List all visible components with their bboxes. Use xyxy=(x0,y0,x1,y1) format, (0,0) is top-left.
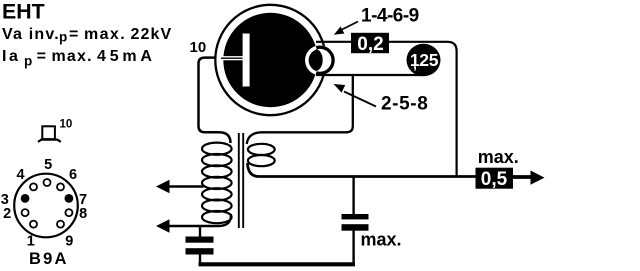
pin 7 filled xyxy=(65,194,74,203)
svg-text:0,5: 0,5 xyxy=(481,169,508,190)
wire anode bottom lead xyxy=(316,74,423,76)
wire anode top to 0,2 box and right rail xyxy=(316,42,457,176)
output box 0,5 xyxy=(476,168,514,189)
top cap symbol xyxy=(42,126,55,139)
tube envelope U1 xyxy=(215,5,325,115)
transformer primary coil L1 xyxy=(202,143,232,155)
svg-text:Iap=max.45mA: Iap=max.45mA xyxy=(2,48,156,68)
pin 6 xyxy=(57,183,64,190)
heater voltage circle 1,25 xyxy=(407,44,441,77)
pin 9 xyxy=(57,221,64,228)
pointer arrow to anode (1-4-6-9) xyxy=(341,22,358,31)
capacitor C1 lower stub xyxy=(199,254,201,264)
pin 3 filled xyxy=(21,194,30,203)
wire grid lead from label 10 down to transformer primary xyxy=(199,58,231,143)
notch circle black arc outside envelope xyxy=(307,47,333,73)
svg-text:1: 1 xyxy=(27,233,35,249)
svg-text:8: 8 xyxy=(79,206,87,222)
svg-text:10: 10 xyxy=(60,118,73,130)
wire drop to transformer secondary top xyxy=(247,75,353,144)
svg-text:B9A: B9A xyxy=(29,250,69,268)
socket B9A outline xyxy=(14,174,78,238)
svg-text:2-5-8: 2-5-8 xyxy=(381,94,428,115)
pin 5 xyxy=(44,179,51,186)
tube anode disc xyxy=(223,13,317,107)
wire primary tap xyxy=(167,185,204,187)
svg-text:,: , xyxy=(413,56,417,72)
svg-text:6: 6 xyxy=(69,167,77,183)
svg-text:max.: max. xyxy=(361,230,402,250)
arrow terminal upper left xyxy=(156,180,170,194)
current label box 0,2 xyxy=(351,33,389,53)
transformer secondary coil L2 xyxy=(248,144,275,155)
pin 2 xyxy=(22,209,29,216)
svg-text:1-4-6-9: 1-4-6-9 xyxy=(361,6,419,27)
svg-text:0,2: 0,2 xyxy=(357,34,383,55)
pin 8 xyxy=(65,209,72,216)
capacitor C2 lower stub xyxy=(352,231,354,265)
wire secondary bottom lead to output rail xyxy=(248,163,532,177)
pin 4 xyxy=(30,183,37,190)
svg-text:2: 2 xyxy=(3,206,11,222)
capacitor C2 plates xyxy=(342,214,369,219)
transformer core xyxy=(238,133,240,228)
capacitor C2 stub xyxy=(352,177,354,216)
svg-text:EHT: EHT xyxy=(2,0,45,24)
svg-text:Va inv.p=max.22kV: Va inv.p=max.22kV xyxy=(2,26,172,45)
svg-text:9: 9 xyxy=(65,233,73,249)
svg-text:5: 5 xyxy=(44,157,52,173)
arrow terminal lower left xyxy=(156,219,170,233)
cathode wire thin line xyxy=(221,57,243,59)
pointer arrow to cathode (2-5-8) xyxy=(344,92,376,107)
capacitor C1 plates xyxy=(186,237,214,243)
wire primary bottom lead xyxy=(167,214,231,226)
notch circle white arc on disc xyxy=(307,47,333,73)
svg-text:4: 4 xyxy=(17,167,25,183)
capacitor C1 stub xyxy=(199,226,201,237)
output arrow xyxy=(513,176,531,179)
cathode bar xyxy=(243,34,250,87)
svg-text:10: 10 xyxy=(190,39,207,56)
anode notch white bite xyxy=(305,45,335,75)
pin 1 xyxy=(30,221,37,228)
cathode bump inside notch xyxy=(308,49,322,71)
svg-text:max.: max. xyxy=(478,147,519,167)
ground rail bottom xyxy=(199,262,356,266)
cathode wire white halo xyxy=(222,56,244,60)
